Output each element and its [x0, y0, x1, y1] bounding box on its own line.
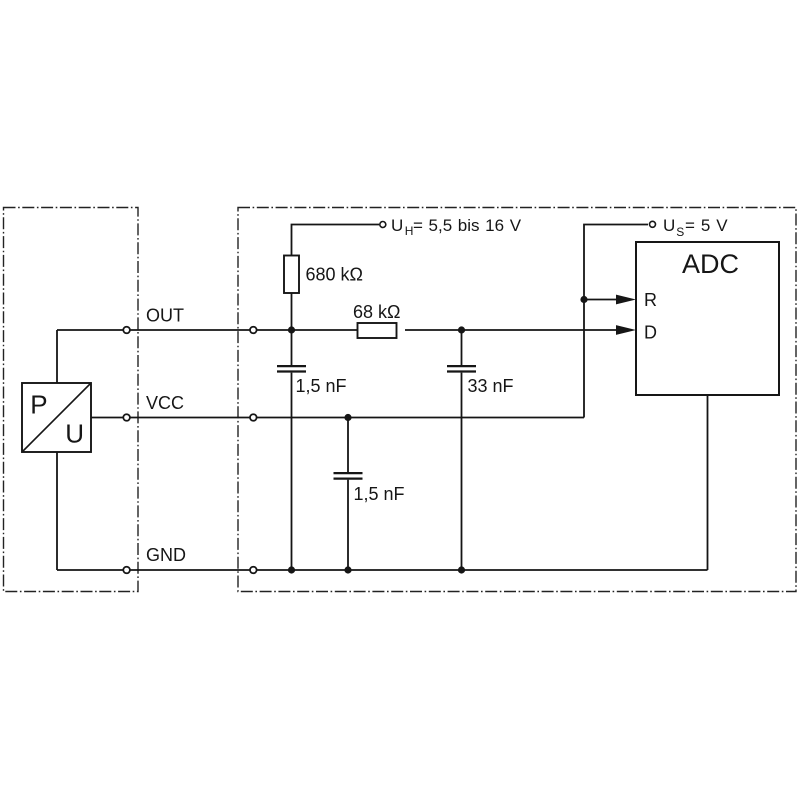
terminal UH supply [380, 222, 386, 228]
arrowhead into pin R [616, 295, 636, 305]
resistor R1 680k body [284, 256, 299, 294]
wire VCC horizontal [91, 417, 584, 419]
terminal VCC circuit [250, 414, 257, 421]
op-amp U2 ADC box [636, 242, 779, 395]
sensor U1 box [22, 383, 91, 452]
svg-text:ADC: ADC [682, 249, 739, 279]
svg-text:GND: GND [146, 545, 186, 565]
wire node B to capacitor C3 [461, 330, 463, 365]
wire node A to capacitor C1 [291, 330, 293, 365]
capacitor C2 plates [334, 473, 363, 479]
terminal VCC sensor [123, 414, 130, 421]
svg-text:D: D [644, 323, 657, 343]
svg-text:680 kΩ: 680 kΩ [306, 265, 364, 285]
terminal GND circuit [250, 567, 257, 574]
junction node A (OUT/R1/C1) [288, 326, 295, 333]
wire OUT to D input [405, 329, 618, 331]
wire capacitor C1 to GND [291, 373, 293, 570]
resistor R2 68k body [358, 323, 397, 338]
junction node GND/C2 [344, 566, 351, 573]
junction node VCC/C2 [344, 414, 351, 421]
wire ADC ground pin [707, 395, 709, 570]
wire R arrow shaft [584, 299, 618, 301]
svg-text:OUT: OUT [146, 306, 184, 326]
terminal GND sensor [123, 567, 130, 574]
svg-text:68 kΩ: 68 kΩ [353, 302, 400, 322]
wire OUT horizontal [57, 329, 358, 331]
wire VCC to capacitor C2 [347, 418, 349, 473]
sensor U1 diagonal [23, 384, 91, 452]
terminal OUT sensor [123, 327, 130, 334]
terminal US supply [650, 221, 656, 227]
wire capacitor C3 to GND [461, 373, 463, 570]
wire resistor R1 top to UH terminal [292, 225, 380, 256]
junction node GND/C3 [458, 566, 465, 573]
capacitor C1 plates [277, 366, 306, 371]
arrowhead into pin D [616, 325, 636, 335]
junction node R (supply to R pin) [580, 296, 587, 303]
junction node GND/C1 [288, 566, 295, 573]
svg-text:VCC: VCC [146, 393, 184, 413]
svg-text:R: R [644, 290, 657, 310]
wire VCC up to supply [584, 225, 648, 418]
enclosure box sensor (dash-dot) [4, 208, 139, 592]
svg-text:33 nF: 33 nF [468, 376, 514, 396]
junction node B (OUT/C3) [458, 326, 465, 333]
svg-text:1,5 nF: 1,5 nF [296, 376, 347, 396]
wire GND from sensor [56, 452, 58, 570]
enclosure box circuit (dash-dot) [238, 208, 796, 592]
wire GND horizontal [57, 569, 708, 571]
wire capacitor C2 to GND [347, 480, 349, 570]
terminal OUT circuit [250, 327, 257, 334]
wire OUT vertical from sensor top [56, 330, 58, 383]
svg-text:P: P [30, 389, 47, 419]
svg-text:U: U [65, 419, 84, 449]
wire node A to resistor R1 [291, 293, 293, 330]
capacitor C3 plates [447, 366, 476, 371]
svg-text:1,5 nF: 1,5 nF [354, 484, 405, 504]
